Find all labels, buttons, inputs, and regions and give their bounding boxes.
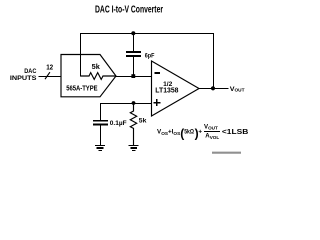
wire: DAC input bus [39,76,62,78]
junction dot: output node [211,86,215,90]
svg-text:5k: 5k [139,117,147,124]
svg-text:5k: 5k [92,64,100,71]
bus width slash [45,72,50,79]
capacitor C2 0.1uF leads [100,103,102,146]
svg-text:LT1358: LT1358 [155,87,178,94]
resistor R2 5k vertical to ground [130,104,136,146]
svg-text:DAC I-to-V Converter: DAC I-to-V Converter [95,5,163,16]
svg-text:<1LSB: <1LSB [222,127,249,136]
junction dot: rail top of 6pF [131,31,135,35]
svg-text:DAC: DAC [24,68,37,75]
wire: rail right drop to output node [213,33,215,89]
junction dot: noninverting node (5k top) [132,101,136,105]
wire: top feedback rail [81,32,214,34]
capacitor C1 6pF plates [126,52,141,56]
svg-text:6pF: 6pF [145,52,155,59]
svg-text:OUT: OUT [235,87,245,93]
op-amp minus sign [155,72,160,74]
resistor 5k internal feedback (horizontal zigzag) [81,73,117,80]
footer rule (gray) [212,152,241,154]
wire: noninverting input from 0.1uF node [100,103,152,105]
svg-text:12: 12 [46,64,53,71]
svg-text:0.1µF: 0.1µF [110,120,127,127]
op-amp U1 triangle [152,61,200,116]
fraction bar VOUT/AVOL [204,130,220,132]
wire: output to VOUT [199,88,229,90]
wire: rail left drop into DAC internal node [80,33,82,77]
DAC 565A-TYPE pentagon body [61,55,116,97]
op-amp plus sign [154,99,161,106]
junction dot: inverting node (6pF bottom) [131,74,135,78]
svg-text:5kΩ: 5kΩ [184,129,194,136]
ground under R2 [129,144,139,146]
svg-text:+: + [198,129,202,136]
capacitor C2 0.1uF plates [93,121,108,125]
wire: DAC Iout to op-amp inverting input [116,76,152,78]
svg-text:565A-TYPE: 565A-TYPE [66,83,97,92]
svg-text:INPUTS: INPUTS [10,75,37,82]
formula: VOS+IOS(5kOhm)+VOUT/AVOL &lt;1LSB [157,123,249,140]
capacitor C1 6pF leads [133,33,135,76]
ground under 0.1uF [95,144,105,146]
